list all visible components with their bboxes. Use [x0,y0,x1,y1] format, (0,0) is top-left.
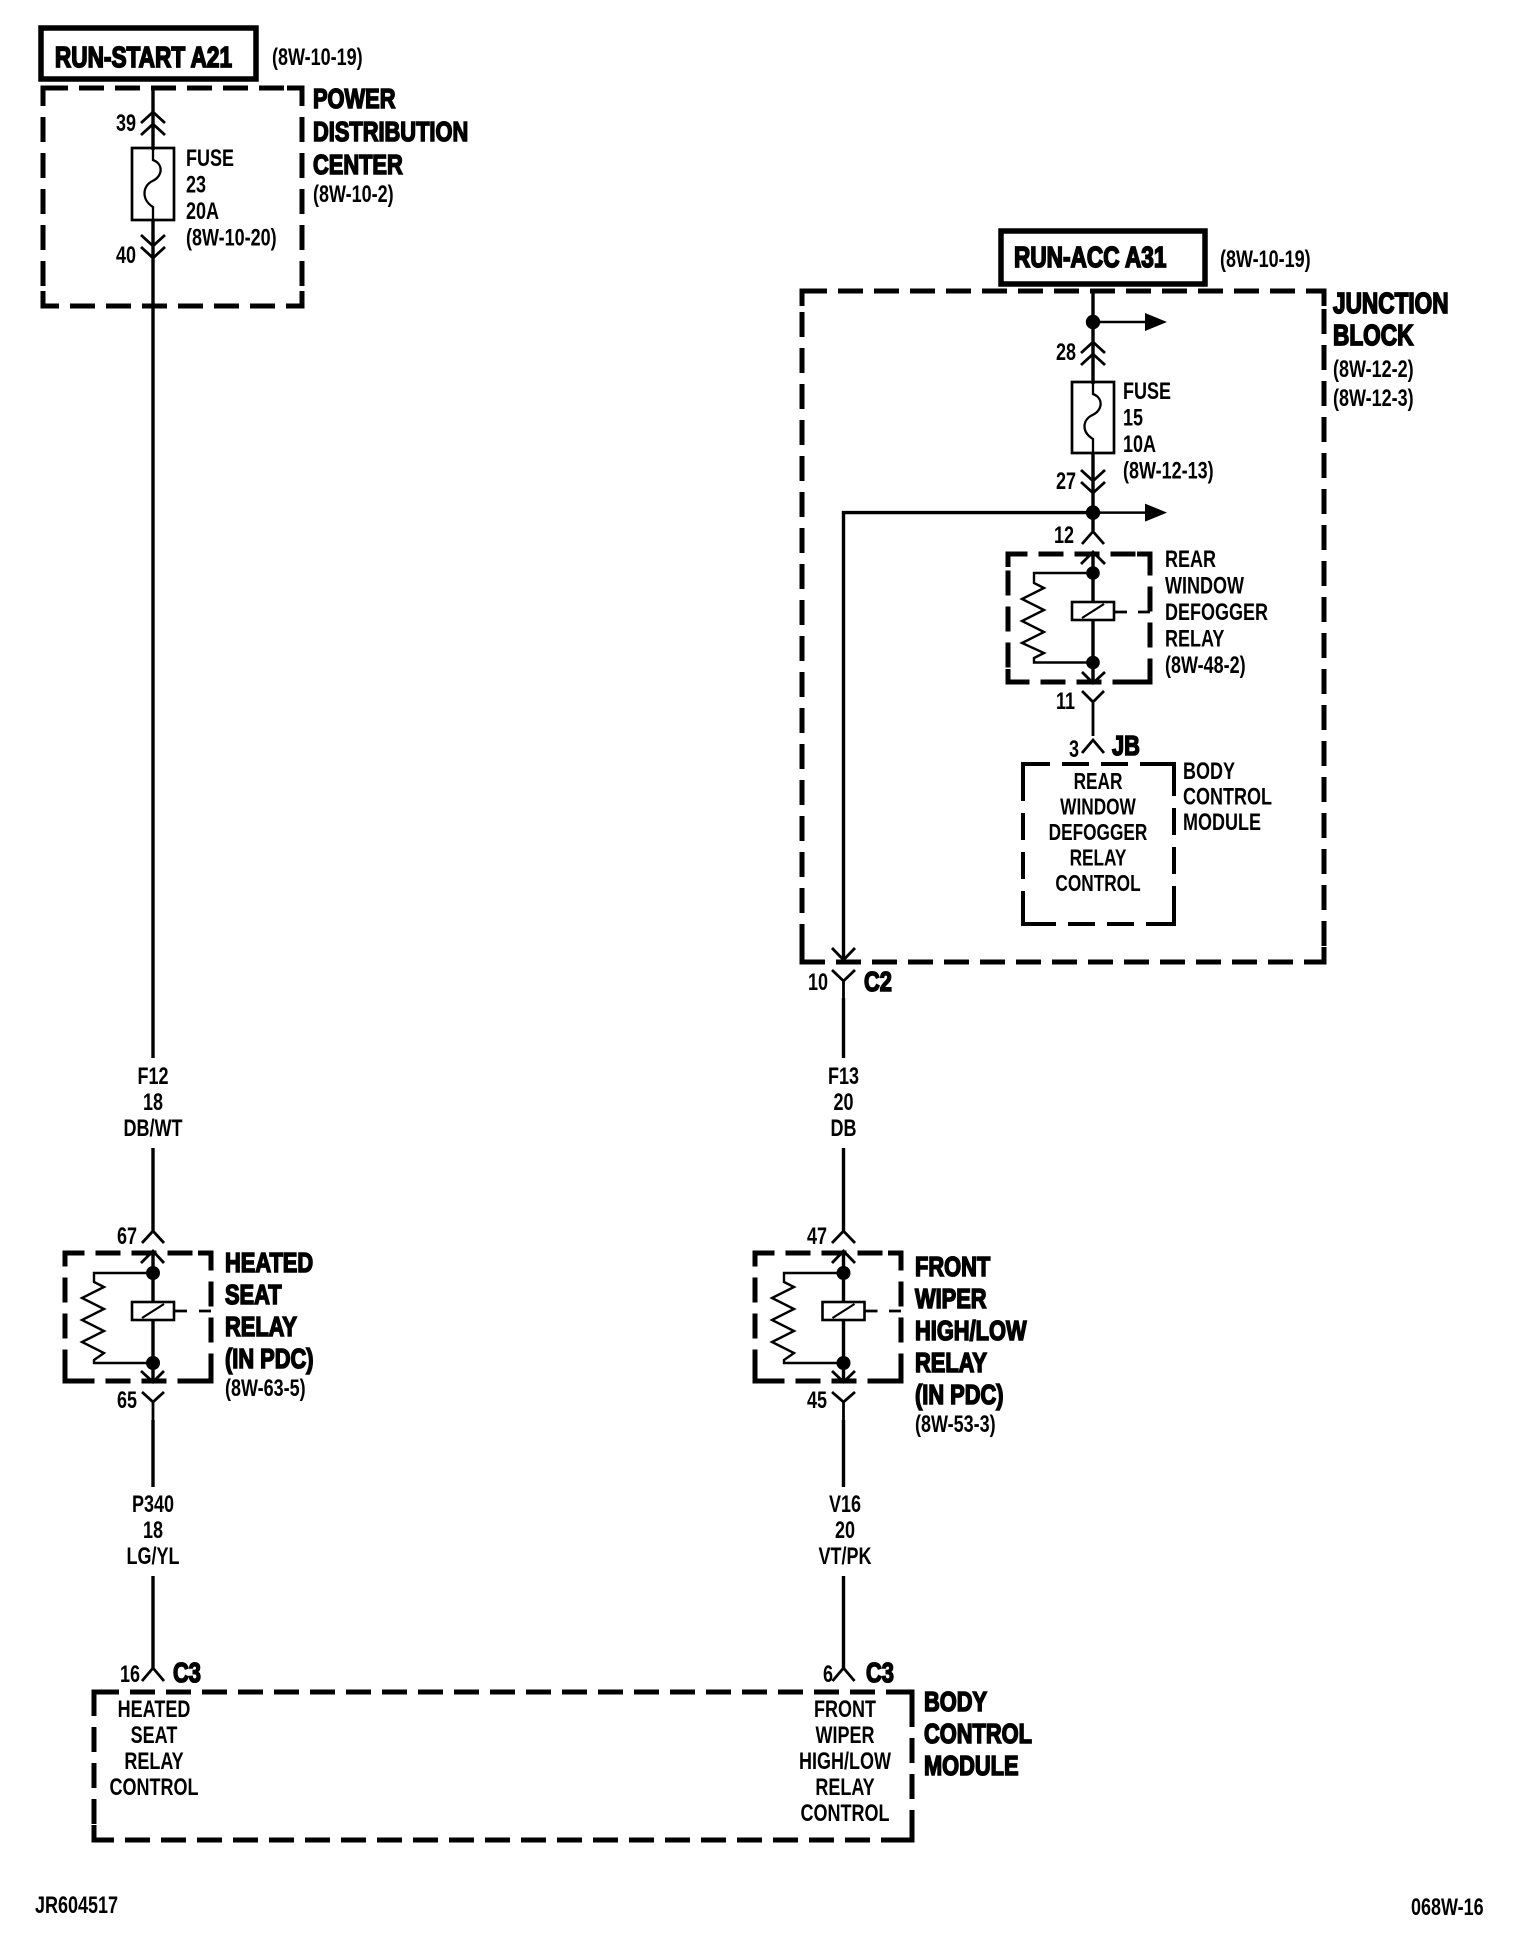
svg-text:15: 15 [1123,405,1143,431]
svg-text:JR604517: JR604517 [35,1893,118,1919]
wire P340 18 LG/YL [151,1420,154,1487]
svg-text:65: 65 [117,1388,137,1414]
svg-text:HIGH/LOW: HIGH/LOW [799,1749,891,1775]
svg-text:068W-16: 068W-16 [1411,1895,1484,1921]
pin 47 connector [832,1231,855,1243]
svg-text:(8W-12-13): (8W-12-13) [1123,458,1214,484]
wire wiper coil bottom [842,1320,845,1363]
svg-text:JUNCTION: JUNCTION [1333,286,1449,319]
svg-text:47: 47 [807,1224,827,1250]
svg-text:(8W-48-2): (8W-48-2) [1165,653,1246,679]
svg-text:WIPER: WIPER [816,1723,875,1749]
wire from PDC top to fuse 23 [151,88,154,150]
svg-text:BLOCK: BLOCK [1333,318,1414,351]
pin 3 connector JB [1082,740,1104,753]
svg-text:RELAY: RELAY [225,1311,297,1342]
front wiper high/low relay box [755,1253,901,1381]
svg-text:CENTER: CENTER [313,149,403,180]
svg-text:WINDOW: WINDOW [1060,795,1136,820]
svg-text:C2: C2 [864,966,892,997]
svg-text:SEAT: SEAT [131,1723,178,1749]
svg-text:RELAY: RELAY [124,1749,183,1775]
svg-text:(IN PDC): (IN PDC) [225,1343,314,1374]
svg-text:12: 12 [1054,523,1074,549]
svg-text:REAR: REAR [1074,770,1123,795]
wire entering defogger relay [1081,552,1105,564]
svg-text:RUN-START A21: RUN-START A21 [55,40,232,73]
svg-text:WIPER: WIPER [915,1283,987,1314]
svg-text:10: 10 [808,970,828,996]
svg-text:RELAY: RELAY [1165,626,1224,652]
pin 12 connector [1082,532,1104,545]
relay coil control pin dash [174,1310,211,1313]
wire leaving front wiper relay [842,1363,845,1382]
svg-text:F13: F13 [828,1064,859,1090]
svg-text:16: 16 [120,1662,140,1688]
svg-text:POWER: POWER [313,83,395,114]
svg-text:DB: DB [831,1116,857,1142]
relay coil defogger [1091,573,1094,602]
svg-text:18: 18 [143,1090,163,1116]
svg-text:CONTROL: CONTROL [1183,784,1272,810]
svg-text:(IN PDC): (IN PDC) [915,1379,1004,1410]
svg-text:45: 45 [807,1388,827,1414]
svg-text:MODULE: MODULE [924,1750,1019,1781]
wiper coil control pin dash [865,1310,902,1313]
svg-text:CONTROL: CONTROL [1055,872,1140,897]
arrow feed to other circuits [1093,321,1146,324]
relay coil K1 [151,1273,154,1302]
svg-text:(8W-10-19): (8W-10-19) [272,45,363,71]
svg-text:CONTROL: CONTROL [924,1718,1032,1749]
svg-text:20: 20 [835,1518,855,1544]
node defogger coil top [1086,566,1100,580]
svg-text:RELAY: RELAY [815,1775,874,1801]
fuse 15 body [1072,382,1114,453]
svg-text:DISTRIBUTION: DISTRIBUTION [313,116,468,147]
svg-text:(8W-10-2): (8W-10-2) [313,182,394,208]
svg-text:FRONT: FRONT [814,1697,876,1723]
svg-text:FRONT: FRONT [915,1251,991,1282]
svg-text:(8W-53-3): (8W-53-3) [915,1412,996,1438]
defogger coil control pin dash [1114,611,1150,614]
svg-text:FUSE: FUSE [186,146,234,172]
pin 27 double chevron [1081,470,1105,493]
node feed junction [1086,315,1100,329]
node RUN-ACC A31 header box [1001,231,1205,284]
svg-text:BODY: BODY [924,1686,987,1717]
svg-text:HEATED: HEATED [225,1247,313,1278]
body control module box [94,1692,912,1840]
svg-text:20A: 20A [186,199,219,225]
svg-text:10A: 10A [1123,432,1156,458]
svg-text:BODY: BODY [1183,759,1235,785]
pin 65 connector [142,1392,164,1420]
wire entering front wiper relay [832,1251,855,1263]
svg-text:VT/PK: VT/PK [819,1544,873,1570]
wire from fuse 15 down [1091,453,1094,531]
wire entering heated seat relay [141,1251,164,1263]
node relay coil top [146,1266,160,1280]
node RUN-START A21 header box [41,28,256,79]
svg-text:V16: V16 [829,1492,861,1518]
pin 10 connector C2 [832,970,855,998]
svg-text:3: 3 [1069,737,1079,763]
svg-text:HEATED: HEATED [118,1697,191,1723]
wire V16 20 VT/PK [842,1420,845,1487]
fuse 23 body [132,148,174,220]
svg-text:SEAT: SEAT [225,1279,282,1310]
svg-text:HIGH/LOW: HIGH/LOW [915,1315,1027,1346]
svg-text:RELAY: RELAY [915,1347,987,1378]
rear window defogger relay box [1008,554,1150,682]
pin 45 connector [832,1392,855,1420]
wire defogger coil bottom [1091,620,1094,663]
svg-text:(8W-10-19): (8W-10-19) [1220,247,1311,273]
svg-text:DB/WT: DB/WT [124,1116,183,1142]
svg-text:MODULE: MODULE [1183,810,1261,836]
wire leaving heated seat relay [151,1363,154,1382]
resistor (relay suppression) [82,1273,153,1363]
svg-text:CONTROL: CONTROL [110,1775,199,1801]
wire from fuse 23 down [151,220,154,1058]
wire from RUN-ACC into junction block [1091,290,1094,384]
svg-text:LG/YL: LG/YL [127,1544,180,1570]
svg-text:RELAY: RELAY [1070,846,1127,871]
node fused output junction [1086,505,1100,519]
svg-text:39: 39 [116,111,136,137]
svg-text:6: 6 [823,1662,833,1688]
svg-text:FUSE: FUSE [1123,379,1171,405]
svg-text:(8W-63-5): (8W-63-5) [225,1376,306,1402]
rear window defogger relay control box [1023,764,1174,924]
svg-text:F12: F12 [137,1064,168,1090]
svg-text:40: 40 [116,243,136,269]
svg-text:C3: C3 [173,1657,201,1688]
pin 28 double chevron [1081,342,1105,365]
relay coil front wiper [842,1273,845,1302]
svg-text:RUN-ACC A31: RUN-ACC A31 [1014,240,1166,273]
heated seat relay box [65,1253,211,1381]
node relay coil bottom [146,1356,160,1370]
wire branch to connector C2 [844,513,1094,958]
svg-text:11: 11 [1056,689,1075,715]
svg-text:REAR: REAR [1165,547,1216,573]
svg-text:DEFOGGER: DEFOGGER [1165,600,1268,626]
svg-text:C3: C3 [866,1657,894,1688]
svg-text:27: 27 [1056,469,1076,495]
node defogger coil bottom [1086,656,1100,670]
wire F13 20 DB [842,998,845,1058]
pin 6 connector C3 [833,1668,855,1681]
resistor (defogger relay suppression) [1022,573,1093,663]
svg-text:CONTROL: CONTROL [801,1801,890,1827]
junction block box [802,291,1324,962]
svg-text:JB: JB [1112,730,1140,761]
svg-text:WINDOW: WINDOW [1165,573,1244,599]
pin 40 double chevron [141,235,165,258]
svg-text:(8W-12-2): (8W-12-2) [1333,357,1414,383]
pin 67 connector [142,1231,164,1243]
svg-text:DEFOGGER: DEFOGGER [1049,821,1148,846]
pin 39 double chevron [141,112,165,135]
node wiper coil top [837,1266,851,1280]
wire leaving defogger relay [1091,663,1094,684]
power distribution center box [43,88,302,306]
node wiper coil bottom [837,1356,851,1370]
svg-text:P340: P340 [132,1492,174,1518]
svg-text:23: 23 [186,172,206,198]
resistor (wiper relay suppression) [772,1273,844,1363]
svg-text:20: 20 [833,1090,853,1116]
pin 11 connector [1082,691,1104,736]
pin 16 connector C3 [142,1668,164,1681]
svg-text:(8W-12-3): (8W-12-3) [1333,386,1414,412]
arrow fused feed to other circuits [1093,511,1146,514]
svg-text:(8W-10-20): (8W-10-20) [186,225,277,251]
svg-text:67: 67 [117,1224,137,1250]
wire relay coil bottom [151,1320,154,1363]
svg-text:28: 28 [1056,340,1076,366]
svg-text:18: 18 [143,1518,163,1544]
